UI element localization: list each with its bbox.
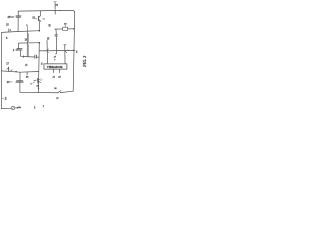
svg-text:5: 5	[6, 36, 8, 40]
svg-text:18: 18	[64, 23, 67, 26]
svg-text:FIG. 2: FIG. 2	[82, 56, 87, 67]
wire bottom	[20, 91, 58, 93]
label 4 at rail	[8, 29, 10, 32]
wire box to rail	[68, 28, 74, 30]
wire left rail	[1, 32, 11, 108]
node dot	[54, 10, 55, 11]
svg-text:5: 5	[34, 107, 36, 110]
main box VIBRADOR	[44, 64, 67, 69]
node dot	[46, 50, 47, 51]
node dot tap	[38, 42, 40, 44]
switch on bottom wire	[57, 92, 58, 93]
wire coil bottom	[25, 56, 35, 58]
wire mid-left rail	[2, 31, 40, 33]
wire lower-left horizontal	[2, 71, 39, 72]
svg-text:17: 17	[6, 62, 9, 65]
wire right rail	[73, 13, 75, 92]
inductor L13 tapped coil	[26, 31, 28, 57]
transistor cross x65	[64, 45, 66, 64]
svg-text:7: 7	[43, 105, 45, 108]
small box 18a	[63, 27, 68, 30]
svg-text:24: 24	[56, 4, 59, 7]
wire top rail	[18, 11, 74, 13]
stub below rail	[54, 10, 56, 14]
svg-text:26: 26	[54, 87, 57, 90]
svg-text:5: 5	[5, 97, 7, 101]
label 3	[6, 23, 9, 25]
wire oscillator output	[39, 49, 74, 52]
transistor Q2 lower center	[34, 79, 37, 82]
svg-text:21: 21	[53, 75, 56, 78]
svg-text:VIBRADOR: VIBRADOR	[47, 65, 64, 69]
capacitor C25 top-left	[17, 11, 19, 16]
svg-text:15: 15	[47, 38, 50, 41]
svg-text:22: 22	[58, 75, 61, 78]
capacitor series plates	[34, 55, 36, 59]
capacitor C23 bottom-left	[19, 72, 21, 80]
node dot at right rail	[73, 50, 75, 52]
svg-text:5: 5	[31, 84, 33, 86]
node dot rail/vertical	[38, 30, 40, 32]
tick right of T1	[43, 18, 45, 20]
capacitor C2 mid-left	[18, 43, 20, 48]
wire to small box	[55, 28, 63, 30]
stubs below box	[53, 69, 55, 72]
wire vertical into box	[46, 40, 49, 64]
svg-text:17: 17	[54, 55, 57, 58]
wire long vertical center-left	[37, 43, 40, 93]
svg-text:19: 19	[48, 23, 51, 26]
capacitor branch x56	[55, 29, 57, 34]
svg-text:2: 2	[13, 49, 15, 52]
svg-text:20: 20	[26, 75, 29, 78]
svg-text:18: 18	[42, 62, 44, 65]
svg-text:27: 27	[56, 97, 59, 100]
svg-text:10: 10	[36, 85, 39, 88]
label 24 top lead	[54, 1, 56, 3]
svg-text:25: 25	[8, 15, 12, 19]
svg-text:23: 23	[7, 81, 10, 84]
wire coil tap	[19, 42, 40, 44]
svg-text:7: 7	[54, 59, 56, 61]
svg-text:4: 4	[76, 51, 78, 54]
source circle bottom-left	[11, 106, 15, 110]
stub below wire at coil column	[26, 72, 28, 75]
transistor T1 top	[39, 11, 41, 16]
